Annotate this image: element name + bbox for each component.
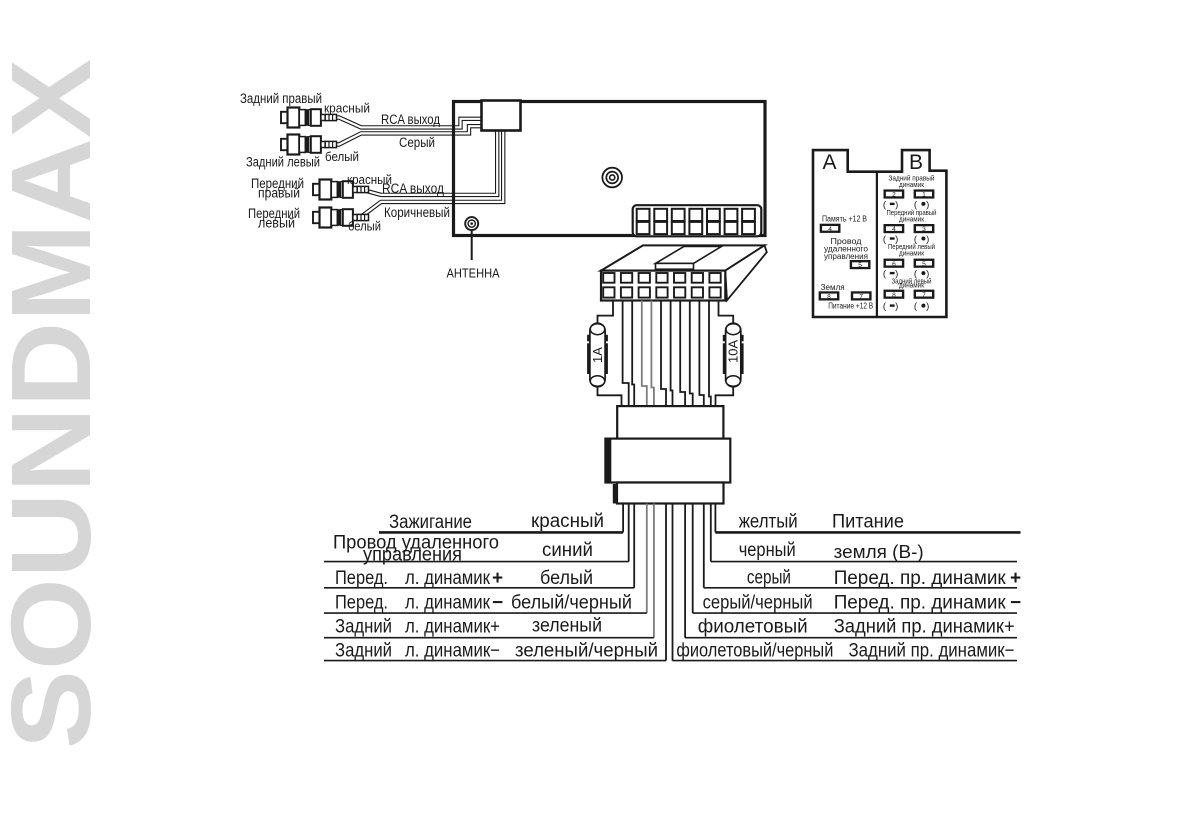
- svg-text:1: 1: [922, 192, 926, 199]
- svg-text:3: 3: [922, 226, 926, 233]
- svg-text:Перед. пр. динамик: Перед. пр. динамик: [834, 568, 1007, 589]
- svg-text:управления: управления: [363, 545, 462, 566]
- svg-text:Питание: Питание: [832, 512, 904, 533]
- svg-text:белый: белый: [325, 149, 359, 164]
- svg-text:динамик: динамик: [899, 215, 925, 224]
- svg-text:л. динамик−: л. динамик−: [405, 641, 500, 662]
- svg-text:Задний: Задний: [335, 641, 392, 662]
- svg-text:зеленый: зеленый: [532, 616, 602, 637]
- svg-text:10A: 10A: [726, 340, 741, 363]
- svg-text:Задний пр. динамик−: Задний пр. динамик−: [849, 641, 1015, 662]
- svg-text:черный: черный: [739, 540, 796, 561]
- svg-text:красный: красный: [324, 101, 370, 116]
- svg-text:5: 5: [858, 262, 862, 269]
- svg-text:зеленый/черный: зеленый/черный: [515, 641, 658, 662]
- svg-text:л. динамик: л. динамик: [405, 593, 491, 614]
- svg-text:SOUNDMAX: SOUNDMAX: [0, 59, 114, 749]
- svg-text:Перед.: Перед.: [335, 593, 388, 614]
- svg-text:6: 6: [892, 261, 896, 268]
- svg-text:Земля: Земля: [821, 283, 845, 292]
- svg-text:динамик: динамик: [899, 249, 925, 258]
- svg-text:Перед. пр. динамик: Перед. пр. динамик: [834, 593, 1007, 614]
- svg-text:белый: белый: [540, 568, 593, 589]
- svg-text:управления: управления: [824, 252, 868, 261]
- svg-text:Задний левый: Задний левый: [246, 155, 320, 170]
- svg-text:динамик: динамик: [899, 180, 925, 189]
- svg-text:Задний: Задний: [335, 617, 392, 638]
- svg-text:A: A: [822, 151, 836, 174]
- svg-text:Зажигание: Зажигание: [389, 512, 472, 533]
- svg-text:правый: правый: [258, 186, 300, 201]
- svg-text:Серый: Серый: [399, 135, 435, 150]
- svg-text:8: 8: [892, 292, 896, 299]
- svg-text:серый/черный: серый/черный: [703, 593, 813, 614]
- svg-text:+: +: [1010, 568, 1021, 589]
- svg-text:белый/черный: белый/черный: [511, 593, 632, 614]
- svg-text:Задний правый: Задний правый: [240, 91, 322, 106]
- svg-text:Память +12 В: Память +12 В: [822, 215, 867, 224]
- svg-text:Перед.: Перед.: [335, 568, 388, 589]
- svg-text:Питание +12 В: Питание +12 В: [828, 302, 873, 311]
- svg-text:динамик: динамик: [899, 281, 925, 290]
- svg-text:4: 4: [892, 226, 896, 233]
- svg-text:RCA выход: RCA выход: [381, 112, 440, 127]
- svg-text:синий: синий: [542, 540, 593, 561]
- svg-text:8: 8: [827, 294, 831, 301]
- svg-text:красный: красный: [531, 511, 604, 532]
- svg-text:л. динамик: л. динамик: [405, 568, 491, 589]
- svg-text:фиолетовый/черный: фиолетовый/черный: [676, 641, 833, 662]
- svg-text:Задний пр. динамик+: Задний пр. динамик+: [834, 617, 1015, 638]
- svg-text:5: 5: [922, 261, 926, 268]
- svg-text:земля (В-): земля (В-): [834, 542, 924, 562]
- svg-text:левый: левый: [258, 216, 295, 231]
- svg-text:−: −: [492, 593, 503, 614]
- svg-text:АНТЕННА: АНТЕННА: [447, 266, 500, 281]
- svg-text:7: 7: [859, 294, 863, 301]
- svg-text:желтый: желтый: [739, 512, 798, 533]
- svg-text:B: B: [909, 151, 923, 174]
- svg-text:1A: 1A: [590, 347, 605, 363]
- svg-text:фиолетовый: фиолетовый: [698, 617, 808, 638]
- svg-text:2: 2: [892, 192, 896, 199]
- svg-text:белый: белый: [348, 219, 381, 234]
- svg-text:серый: серый: [747, 568, 791, 589]
- svg-text:4: 4: [828, 226, 832, 233]
- svg-text:л. динамик+: л. динамик+: [405, 617, 500, 638]
- svg-text:−: −: [1010, 593, 1021, 614]
- svg-text:Коричневый: Коричневый: [384, 205, 450, 220]
- svg-text:7: 7: [922, 292, 926, 299]
- svg-text:RCA выход: RCA выход: [382, 181, 444, 196]
- svg-text:+: +: [492, 568, 503, 589]
